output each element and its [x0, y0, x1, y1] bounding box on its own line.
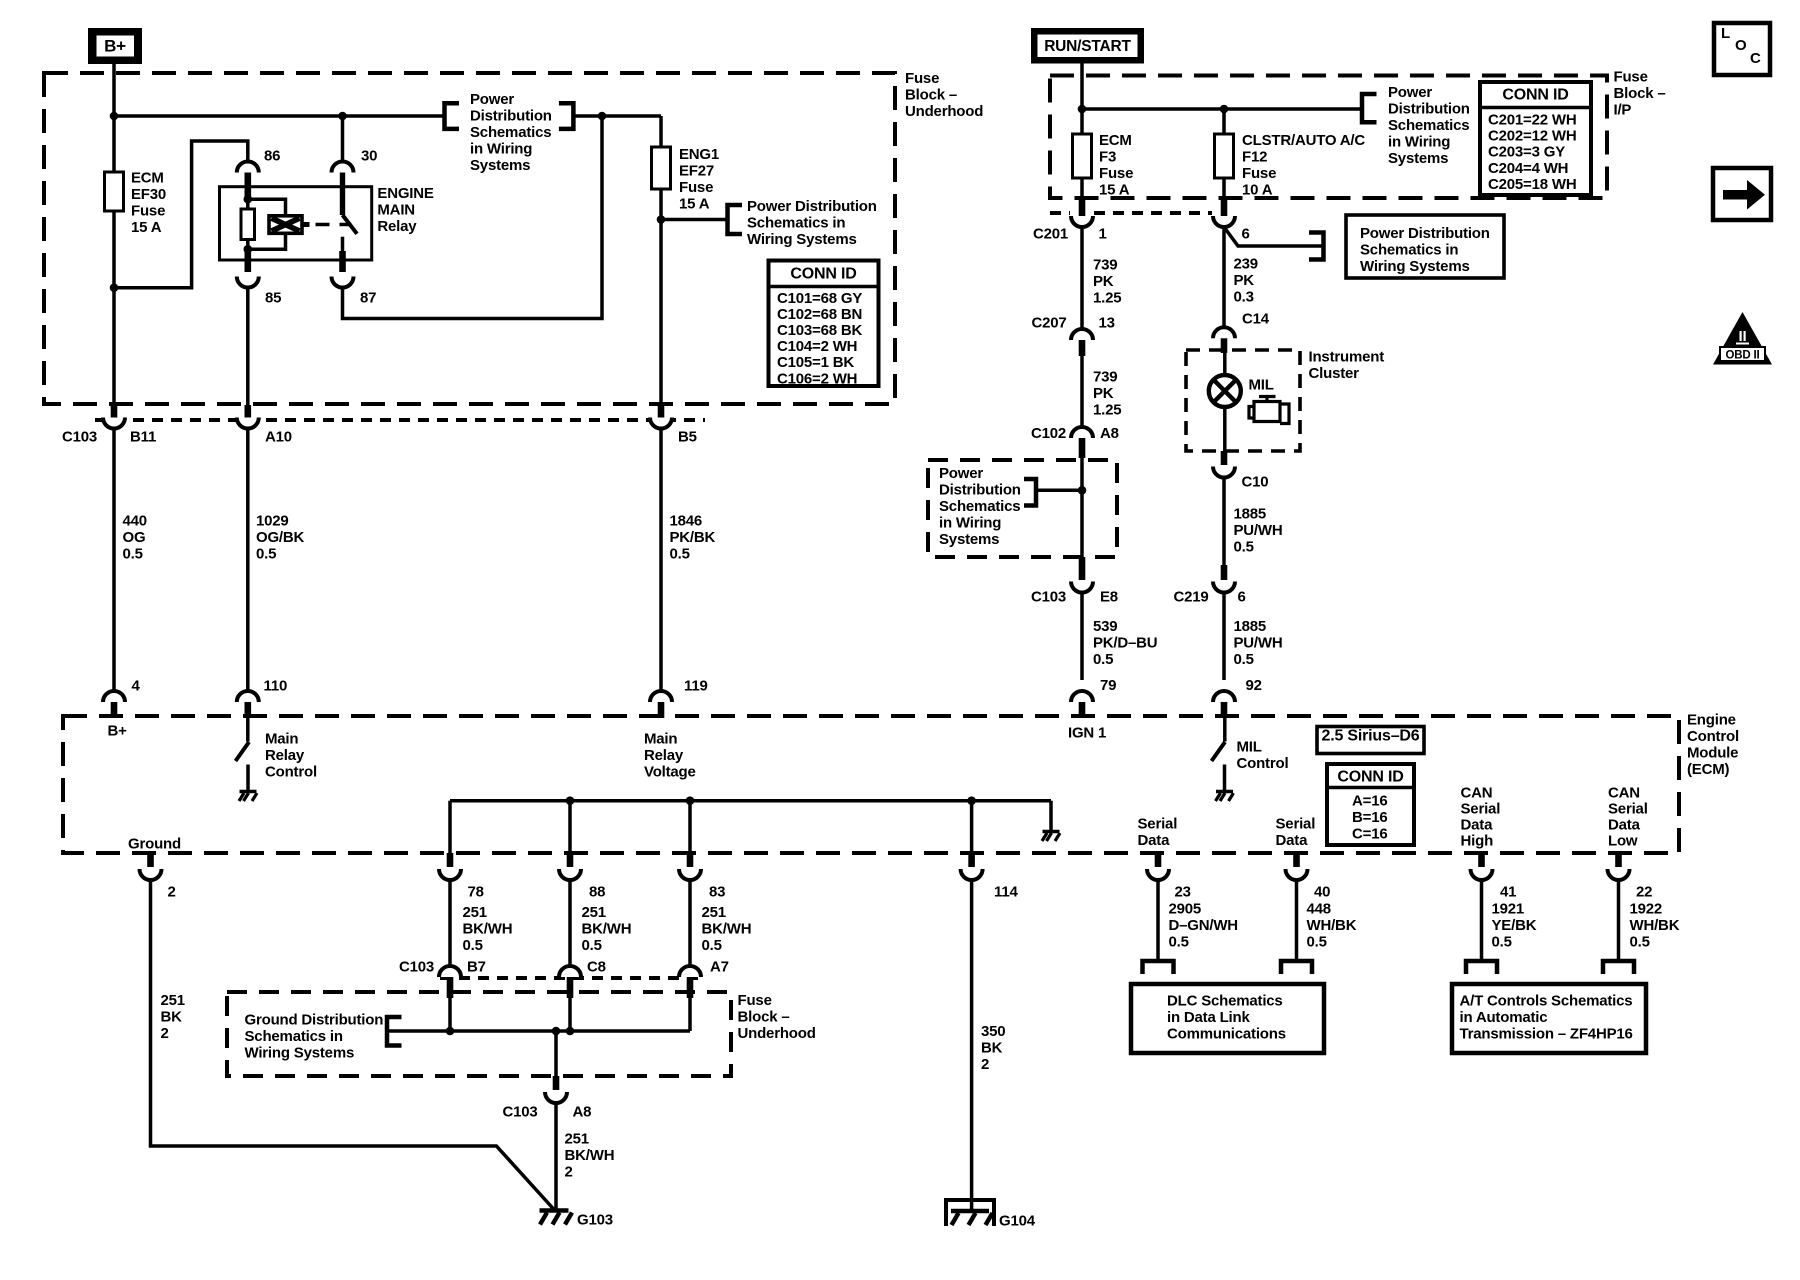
- connector C201 pin 6: [1222, 178, 1226, 198]
- pin stub 87: [339, 251, 346, 272]
- svg-text:2.5 Sirius–D6: 2.5 Sirius–D6: [1322, 727, 1420, 744]
- svg-text:1.25: 1.25: [1093, 401, 1121, 418]
- wire pin 85 to A10: [246, 288, 250, 407]
- wire 440 OG B11 to ECM pin4: [112, 429, 116, 692]
- svg-text:Instrument: Instrument: [1309, 348, 1385, 365]
- svg-text:CAN: CAN: [1608, 784, 1640, 801]
- engine control module dashed enclosure: [63, 716, 1679, 853]
- power feed B+ symbol box: [88, 28, 142, 64]
- svg-text:0.5: 0.5: [1307, 933, 1327, 950]
- off-page fork pin 41: [1466, 961, 1497, 974]
- svg-text:1029: 1029: [256, 512, 289, 529]
- svg-text:B5: B5: [678, 428, 697, 445]
- relay switch blade: [343, 215, 358, 234]
- box DLC Schematics: [1131, 984, 1324, 1053]
- ground internal (MIL control): [1216, 790, 1233, 793]
- svg-text:C207: C207: [1032, 314, 1067, 331]
- svg-text:PU/WH: PU/WH: [1234, 634, 1283, 651]
- fuse ENG1 EF27 15A: [652, 147, 671, 189]
- svg-text:Serial: Serial: [1276, 815, 1316, 832]
- svg-text:350: 350: [981, 1023, 1005, 1040]
- svg-text:0.5: 0.5: [702, 937, 722, 954]
- actuator stub from suppressor: [302, 222, 310, 227]
- wire CLSTR fuse top: [1222, 109, 1226, 134]
- svg-text:Distribution: Distribution: [939, 481, 1021, 498]
- svg-text:Fuse: Fuse: [738, 992, 772, 1009]
- wire 350 BK pin114 to G104: [970, 880, 974, 1211]
- bracket ground distribution: [387, 1017, 402, 1046]
- connector C103 pin B7: [439, 966, 461, 977]
- svg-text:0.5: 0.5: [1093, 651, 1113, 668]
- svg-text:85: 85: [265, 289, 281, 306]
- svg-text:Fuse: Fuse: [131, 203, 165, 220]
- svg-text:ECM: ECM: [131, 170, 164, 187]
- off-page fork pin 22: [1603, 961, 1634, 974]
- svg-text:Fuse: Fuse: [905, 70, 939, 87]
- connector table CONN ID I/P: [1480, 82, 1591, 195]
- svg-text:RUN/START: RUN/START: [1044, 38, 1131, 55]
- svg-text:WH/BK: WH/BK: [1630, 917, 1680, 934]
- svg-text:MAIN: MAIN: [377, 202, 415, 219]
- svg-text:C14: C14: [1242, 310, 1270, 327]
- svg-text:Data: Data: [1461, 816, 1494, 833]
- connector C201 pin 1: [1080, 178, 1084, 198]
- svg-text:C: C: [1750, 50, 1761, 67]
- svg-text:Cluster: Cluster: [1309, 365, 1360, 382]
- svg-text:PK/BK: PK/BK: [670, 529, 716, 546]
- wire B+ down to fuse EF30: [112, 64, 116, 172]
- svg-text:15 A: 15 A: [131, 219, 162, 236]
- svg-text:E8: E8: [1100, 588, 1118, 605]
- svg-text:440: 440: [123, 512, 147, 529]
- wire branch to C103 A8: [554, 1031, 558, 1076]
- svg-text:in Wiring: in Wiring: [470, 141, 532, 158]
- svg-text:A=16: A=16: [1352, 792, 1387, 809]
- resistor relay coil: [246, 199, 250, 209]
- svg-text:2905: 2905: [1169, 900, 1202, 917]
- pin stub 30: [340, 173, 345, 216]
- svg-text:0.5: 0.5: [670, 545, 690, 562]
- svg-text:C106=2 WH: C106=2 WH: [777, 370, 857, 387]
- svg-text:22: 22: [1636, 883, 1652, 900]
- svg-text:30: 30: [361, 147, 377, 164]
- svg-text:IGN 1: IGN 1: [1068, 724, 1106, 741]
- svg-text:in Wiring: in Wiring: [939, 514, 1001, 531]
- bracket to Power Distribution Schematics (left): [445, 103, 460, 129]
- svg-text:92: 92: [1246, 677, 1262, 694]
- wire ground bus drop 78: [448, 801, 452, 853]
- svg-text:251: 251: [702, 904, 726, 921]
- wire ground bus drop 114: [970, 801, 974, 853]
- bracket from Power Distribution Schematics (right): [559, 103, 574, 129]
- svg-text:O: O: [1735, 37, 1747, 54]
- connector table CONN ID ECM: [1327, 764, 1414, 845]
- svg-text:II: II: [1739, 328, 1747, 345]
- svg-text:C103: C103: [62, 428, 97, 445]
- wire RUN/START down: [1080, 64, 1084, 135]
- node ground bus 88: [566, 796, 575, 805]
- wire lamp to C10: [1223, 407, 1227, 451]
- svg-text:C201=22 WH: C201=22 WH: [1488, 111, 1576, 128]
- wire ENG1 fuse down to B5: [659, 189, 663, 406]
- power feed RUN/START symbol box: [1031, 28, 1144, 64]
- ground G103: [540, 1208, 569, 1212]
- svg-text:C8: C8: [587, 958, 606, 975]
- wire coil loop: [248, 199, 286, 249]
- svg-text:PK: PK: [1093, 273, 1114, 290]
- svg-text:PK: PK: [1093, 385, 1114, 402]
- bracket underhood mid: [1024, 479, 1036, 506]
- svg-text:0.5: 0.5: [1630, 933, 1650, 950]
- svg-text:BK/WH: BK/WH: [565, 1147, 615, 1164]
- bracket power distribution (cluster feed): [1309, 233, 1324, 260]
- svg-text:79: 79: [1100, 677, 1116, 694]
- svg-text:Power: Power: [1388, 84, 1432, 101]
- svg-text:C205=18 WH: C205=18 WH: [1488, 176, 1576, 193]
- svg-text:G103: G103: [577, 1211, 613, 1228]
- svg-text:6: 6: [1242, 225, 1250, 242]
- svg-text:Schematics: Schematics: [1388, 117, 1469, 134]
- svg-text:251: 251: [161, 992, 185, 1009]
- svg-text:Fuse: Fuse: [1242, 165, 1276, 182]
- svg-text:B+: B+: [108, 722, 128, 739]
- svg-text:BK/WH: BK/WH: [702, 920, 752, 937]
- svg-text:114: 114: [994, 883, 1018, 900]
- svg-text:C=16: C=16: [1352, 825, 1387, 842]
- svg-text:Fuse: Fuse: [1614, 68, 1648, 85]
- wire 448 WH/BK: [1295, 880, 1299, 960]
- wire ground bus drop 83: [688, 801, 692, 853]
- svg-text:Wiring Systems: Wiring Systems: [747, 231, 857, 248]
- svg-text:CAN: CAN: [1461, 784, 1493, 801]
- connector C102 pin A8: [1071, 427, 1093, 438]
- svg-text:739: 739: [1093, 256, 1117, 273]
- svg-text:B+: B+: [104, 36, 126, 55]
- wire 251 BK to G103: [151, 880, 555, 1210]
- connector arc relay pin 86: [237, 162, 259, 173]
- relay actuation dashed link: [316, 223, 352, 227]
- svg-text:PK/D–BU: PK/D–BU: [1093, 634, 1157, 651]
- bracket power distribution (I/P): [1362, 94, 1377, 122]
- svg-text:Ground Distribution: Ground Distribution: [245, 1011, 384, 1028]
- svg-text:A/T Controls Schematics: A/T Controls Schematics: [1460, 992, 1633, 1009]
- svg-text:2: 2: [981, 1056, 989, 1073]
- node relay coil top: [244, 195, 253, 204]
- wire B7 drop to bus: [448, 998, 452, 1031]
- wire inside small fuse block: [1080, 458, 1084, 557]
- wire 1885 PU/WH (2): [1222, 593, 1226, 681]
- svg-text:6: 6: [1238, 588, 1246, 605]
- svg-text:ECM: ECM: [1099, 132, 1132, 149]
- node bus A8 branch: [552, 1027, 561, 1036]
- svg-text:Block –: Block –: [905, 86, 957, 103]
- wire 251 BK/WH pin88: [568, 880, 572, 966]
- svg-text:OBD II: OBD II: [1726, 350, 1760, 362]
- svg-text:C102=68 BN: C102=68 BN: [777, 306, 862, 323]
- svg-text:in Wiring: in Wiring: [1388, 133, 1450, 150]
- wire ignition bus horizontal: [1082, 107, 1362, 111]
- inline connector C219 pin 6: [1221, 565, 1228, 580]
- ground G104: [946, 1200, 994, 1226]
- ECM pin 78 connector: [447, 853, 454, 867]
- svg-text:1885: 1885: [1234, 505, 1267, 522]
- svg-text:B11: B11: [130, 428, 156, 445]
- svg-text:CLSTR/AUTO A/C: CLSTR/AUTO A/C: [1242, 132, 1365, 149]
- svg-text:C219: C219: [1174, 588, 1209, 605]
- svg-text:F12: F12: [1242, 148, 1267, 165]
- svg-text:Power Distribution: Power Distribution: [1360, 225, 1490, 242]
- svg-text:0.5: 0.5: [1234, 538, 1254, 555]
- svg-text:B=16: B=16: [1352, 809, 1387, 826]
- connector C103 pin A7: [679, 966, 701, 977]
- ECM pin 40 connector: [1293, 853, 1300, 867]
- fuse block underhood small dashed enclosure: [928, 460, 1117, 557]
- connector C14: [1213, 327, 1235, 338]
- svg-text:C103=68 BK: C103=68 BK: [777, 322, 863, 339]
- svg-text:C202=12 WH: C202=12 WH: [1488, 128, 1576, 145]
- node relay pin30 branch: [338, 112, 347, 121]
- connector C103 pin B11: [111, 405, 118, 418]
- svg-text:83: 83: [709, 883, 725, 900]
- wire 1885 PU/WH: [1222, 478, 1226, 566]
- svg-text:Systems: Systems: [470, 157, 530, 174]
- pin stub 85: [245, 249, 252, 272]
- svg-text:Control: Control: [265, 763, 317, 780]
- svg-text:Systems: Systems: [939, 531, 999, 548]
- svg-text:D–GN/WH: D–GN/WH: [1169, 917, 1238, 934]
- node relay coil bottom: [244, 245, 253, 254]
- svg-text:1921: 1921: [1492, 900, 1525, 917]
- svg-text:23: 23: [1175, 883, 1191, 900]
- svg-text:C105=1 BK: C105=1 BK: [777, 354, 854, 371]
- wire 539 PK/D-BU: [1080, 593, 1084, 681]
- svg-text:EF27: EF27: [679, 162, 714, 179]
- svg-text:1846: 1846: [670, 512, 703, 529]
- svg-text:Underhood: Underhood: [905, 103, 983, 120]
- connector table CONN ID underhood: [769, 261, 879, 387]
- svg-text:251: 251: [565, 1130, 589, 1147]
- node B+ bus junction: [110, 112, 119, 121]
- icon check-engine: [1259, 397, 1276, 402]
- svg-text:C103: C103: [399, 958, 434, 975]
- relay switch lower contact: [341, 237, 345, 251]
- wire from schematics bracket to ENG1 riser: [573, 114, 661, 118]
- node IGN feed tap: [1078, 486, 1087, 495]
- svg-text:in Data Link: in Data Link: [1167, 1009, 1250, 1026]
- svg-text:Distribution: Distribution: [470, 108, 552, 125]
- node ENG1 output branch: [657, 215, 666, 224]
- svg-text:110: 110: [264, 678, 288, 695]
- svg-text:Relay: Relay: [377, 218, 417, 235]
- node bus C8: [566, 1027, 575, 1036]
- svg-text:78: 78: [468, 883, 484, 900]
- svg-text:0.5: 0.5: [1234, 651, 1254, 668]
- svg-text:Control: Control: [1237, 755, 1289, 772]
- svg-text:0.5: 0.5: [463, 937, 483, 954]
- node bus B7: [446, 1027, 455, 1036]
- bracket power distribution (ENG1): [728, 205, 743, 234]
- wire 739 PK to C102: [1080, 356, 1084, 427]
- svg-text:15 A: 15 A: [679, 195, 710, 212]
- fuse EF30 wire: [112, 211, 116, 404]
- svg-text:(ECM): (ECM): [1687, 761, 1730, 778]
- svg-text:239: 239: [1234, 255, 1258, 272]
- connector line C201 dotted: [1050, 211, 1070, 215]
- svg-text:Distribution: Distribution: [1388, 100, 1470, 117]
- svg-text:87: 87: [360, 289, 376, 306]
- svg-text:0.5: 0.5: [582, 937, 602, 954]
- svg-text:Fuse: Fuse: [679, 179, 713, 196]
- fuse block I/P dashed enclosure: [1050, 76, 1607, 199]
- svg-text:1: 1: [1099, 225, 1107, 242]
- fuse block underhood dashed enclosure: [44, 73, 895, 404]
- svg-text:Relay: Relay: [644, 747, 684, 764]
- svg-text:2: 2: [161, 1025, 169, 1042]
- wire 251 BK/WH pin78: [448, 880, 452, 966]
- connector C103 pin A10: [245, 405, 252, 418]
- wire A7 drop to bus: [688, 998, 692, 1031]
- svg-text:Schematics: Schematics: [939, 498, 1020, 515]
- svg-text:Schematics in: Schematics in: [747, 215, 845, 232]
- svg-text:40: 40: [1314, 883, 1330, 900]
- svg-text:CONN ID: CONN ID: [1502, 86, 1568, 103]
- lamp MIL indicator: [1209, 375, 1241, 407]
- connector C10: [1221, 451, 1228, 465]
- svg-text:CONN ID: CONN ID: [1337, 768, 1403, 785]
- svg-text:in Automatic: in Automatic: [1460, 1009, 1548, 1026]
- connector C103 pin B5: [658, 405, 665, 418]
- svg-text:Transmission – ZF4HP16: Transmission – ZF4HP16: [1460, 1025, 1633, 1042]
- svg-text:Main: Main: [644, 730, 677, 747]
- wire to power distribution bracket (ENG1): [661, 218, 728, 222]
- svg-text:C101=68 GY: C101=68 GY: [777, 290, 862, 307]
- svg-text:0.5: 0.5: [256, 545, 276, 562]
- svg-text:ENG1: ENG1: [679, 146, 719, 163]
- box A/T Controls Schematics: [1452, 984, 1646, 1053]
- svg-text:High: High: [1461, 832, 1494, 849]
- svg-text:251: 251: [582, 904, 606, 921]
- svg-text:C103: C103: [1031, 588, 1066, 605]
- connector C103 pin A8: [553, 1076, 560, 1090]
- svg-text:I/P: I/P: [1614, 101, 1632, 118]
- pin stub 86: [245, 173, 252, 200]
- svg-text:Block –: Block –: [1614, 85, 1666, 102]
- svg-text:Schematics: Schematics: [470, 124, 551, 141]
- svg-text:Engine: Engine: [1687, 712, 1736, 729]
- icon LOC box: [1714, 23, 1770, 75]
- icon forward arrow box: [1713, 168, 1771, 220]
- wire 1029 OG/BK A10 to pin110: [246, 429, 250, 692]
- icon OBD II triangle: [1713, 312, 1772, 365]
- wire 251 BK/WH pin83: [688, 880, 692, 966]
- node coil feed branch: [110, 283, 119, 292]
- connector arc relay pin 30: [332, 162, 354, 173]
- svg-text:Power: Power: [470, 91, 514, 108]
- svg-text:C102: C102: [1031, 425, 1066, 442]
- ECM pin 83 connector: [687, 853, 694, 867]
- wire 1846 PK/BK B5 to pin119: [659, 429, 663, 692]
- svg-text:OG: OG: [123, 529, 146, 546]
- fuse ECM F3 15A: [1073, 134, 1092, 178]
- wire B+ horizontal bus: [114, 114, 445, 118]
- connector C103 pin E8: [1079, 557, 1086, 580]
- wire ground bus to internal ground: [1049, 801, 1053, 832]
- off-page fork pin 23: [1143, 961, 1174, 974]
- svg-text:0.3: 0.3: [1234, 288, 1254, 305]
- svg-text:C203=3 GY: C203=3 GY: [1488, 144, 1565, 161]
- fuse ECM EF30 15A: [105, 172, 124, 211]
- wire MIL branch down from pin6 cup: [1222, 227, 1226, 327]
- svg-text:2: 2: [565, 1163, 573, 1180]
- svg-text:1922: 1922: [1630, 900, 1663, 917]
- node riser junction: [598, 112, 607, 121]
- svg-text:0.5: 0.5: [1492, 933, 1512, 950]
- ECM pin 114 connector: [968, 853, 975, 867]
- ground internal (main relay control): [240, 790, 257, 793]
- svg-text:Block –: Block –: [738, 1008, 790, 1025]
- svg-text:BK/WH: BK/WH: [582, 920, 632, 937]
- svg-text:Power Distribution: Power Distribution: [747, 198, 877, 215]
- wire 739 PK to C207: [1080, 227, 1084, 329]
- switch MIL Control: [1223, 718, 1227, 742]
- svg-text:86: 86: [264, 147, 280, 164]
- wire pin30 from B+ bus: [341, 116, 345, 162]
- ECM pin 88 connector: [567, 853, 574, 867]
- svg-text:1885: 1885: [1234, 618, 1267, 635]
- inline connector C207 pin 13: [1071, 329, 1093, 340]
- svg-text:1.25: 1.25: [1093, 289, 1121, 306]
- svg-text:Control: Control: [1687, 728, 1739, 745]
- svg-text:A8: A8: [573, 1103, 592, 1120]
- suppressor crossed-box element: [269, 216, 302, 234]
- connector arc relay pin 85: [237, 277, 259, 288]
- svg-text:Voltage: Voltage: [644, 763, 696, 780]
- svg-text:BK/WH: BK/WH: [463, 920, 513, 937]
- fuse CLSTR/AUTO A/C F12 10A: [1215, 134, 1234, 178]
- node ground bus 114: [967, 796, 976, 805]
- svg-text:MIL: MIL: [1249, 376, 1274, 393]
- svg-text:0.5: 0.5: [123, 545, 143, 562]
- svg-text:Module: Module: [1687, 745, 1738, 762]
- svg-text:Ground: Ground: [128, 835, 181, 852]
- switch Main Relay Control: [246, 718, 250, 742]
- svg-text:Main: Main: [265, 730, 298, 747]
- instrument cluster dashed enclosure: [1186, 350, 1300, 451]
- connector arc relay pin 87: [332, 277, 354, 288]
- svg-text:Wiring Systems: Wiring Systems: [245, 1044, 355, 1061]
- wire bracket to IGN feed: [1036, 489, 1082, 493]
- wire ENG1 fuse top: [659, 116, 663, 147]
- svg-text:13: 13: [1099, 314, 1115, 331]
- svg-text:G104: G104: [999, 1212, 1036, 1229]
- svg-text:BK: BK: [981, 1039, 1003, 1056]
- wire B+ to relay coil pin 86: [114, 141, 248, 288]
- svg-text:Fuse: Fuse: [1099, 165, 1133, 182]
- svg-text:Schematics in: Schematics in: [1360, 241, 1458, 258]
- svg-text:Low: Low: [1608, 832, 1638, 849]
- svg-text:251: 251: [463, 904, 487, 921]
- box 2.5 Sirius-D6: [1317, 727, 1424, 754]
- wire 251 BK/WH to G103: [554, 1103, 558, 1210]
- svg-text:A8: A8: [1100, 425, 1119, 442]
- svg-text:119: 119: [684, 678, 708, 695]
- svg-text:B7: B7: [467, 958, 486, 975]
- svg-text:C104=2 WH: C104=2 WH: [777, 338, 857, 355]
- wire 1921 YE/BK: [1480, 880, 1484, 960]
- wire into MIL lamp: [1223, 353, 1227, 376]
- fuse block underhood lower dashed enclosure: [227, 992, 731, 1076]
- svg-text:739: 739: [1093, 368, 1117, 385]
